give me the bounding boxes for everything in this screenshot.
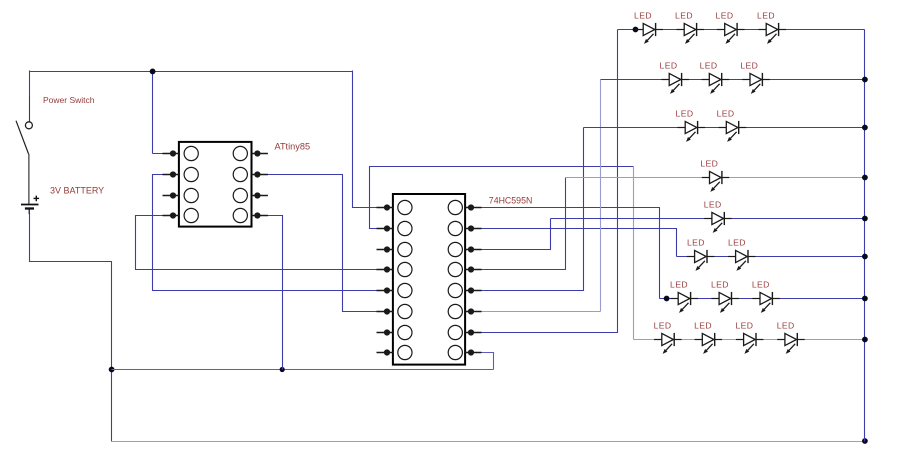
- svg-text:74HC595N: 74HC595N: [489, 195, 533, 205]
- LED D14 row1: [757, 11, 786, 44]
- wire 595 pin4R to row4 riser: [472, 178, 566, 270]
- wire LED row2: [601, 79, 865, 81]
- svg-text:LED: LED: [752, 280, 770, 290]
- junction bottom right corner: [862, 438, 868, 444]
- wire battery negative down-right-down: [30, 214, 112, 442]
- wire GND horizontal: [112, 369, 494, 371]
- svg-text:ATtiny85: ATtiny85: [275, 142, 311, 152]
- wire LED row7: [660, 298, 865, 300]
- wire ATtiny pin7 to 595 pin6L: [258, 175, 388, 312]
- LED D23 row2: [740, 61, 769, 94]
- svg-text:LED: LED: [740, 61, 758, 71]
- svg-text:LED: LED: [735, 321, 753, 331]
- svg-text:LED: LED: [777, 321, 795, 331]
- LED D22 row2: [700, 61, 729, 94]
- wire riser to LED row2: [600, 80, 602, 312]
- LED D71 row7: [670, 280, 698, 313]
- svg-text:3V BATTERY: 3V BATTERY: [50, 185, 104, 195]
- junction bus/row8: [862, 337, 868, 343]
- svg-text:LED: LED: [711, 280, 729, 290]
- wire LED row3: [584, 127, 865, 129]
- svg-text:LED: LED: [670, 280, 688, 290]
- switch S1 Power Switch: [16, 121, 32, 205]
- junction GND/ATtiny pin5: [280, 367, 285, 372]
- junction row1 left: [633, 27, 639, 33]
- svg-text:LED: LED: [704, 200, 722, 210]
- wire rail to ATtiny85 pin1 riser: [152, 72, 154, 154]
- junction bus/row5: [862, 216, 868, 222]
- battery BT1 3V: [21, 196, 39, 214]
- wire 595 pin3R to row5 riser: [472, 219, 551, 250]
- LED D13 row1: [716, 11, 745, 44]
- wire LED row1: [618, 29, 865, 31]
- wire rail corner down to switch: [29, 71, 31, 97]
- wire 595 pin2R to row6 riser: [472, 229, 677, 257]
- wire 595 pin5R to row3 riser: [472, 128, 584, 291]
- LED D82 row8: [694, 321, 722, 354]
- wire LED row4: [566, 177, 865, 179]
- svg-text:LED: LED: [687, 238, 705, 248]
- junction bus/row7: [862, 296, 868, 302]
- svg-text:LED: LED: [700, 61, 718, 71]
- junction battery/GND rail: [109, 367, 115, 373]
- LED D84 row8: [777, 321, 805, 354]
- wire right bus: [864, 30, 866, 442]
- junction rail/ATtiny: [150, 69, 156, 75]
- junction bus/row2: [862, 77, 868, 83]
- wire GND up to 595 pin9: [467, 353, 494, 370]
- svg-text:Power Switch: Power Switch: [43, 95, 95, 105]
- wire top power rail: [30, 71, 353, 73]
- svg-text:LED: LED: [717, 109, 735, 119]
- wire ATtiny pin5 to GND: [258, 216, 283, 370]
- junction bus/row3: [862, 125, 868, 131]
- svg-text:LED: LED: [728, 238, 746, 248]
- wire 595 pin7R to row1 riser: [472, 30, 618, 333]
- wire LED row5: [551, 218, 865, 220]
- op-amp U1 ATtiny85 DIP-8: [163, 142, 268, 227]
- LED D62 row6: [728, 238, 756, 271]
- op-amp U2 74HC595N DIP-16: [377, 194, 482, 365]
- svg-text:LED: LED: [634, 11, 652, 21]
- wire 595 pin1R to row7 riser: [472, 208, 660, 299]
- wire to ATtiny85 pin1: [153, 153, 174, 155]
- junction bus/row4: [862, 175, 868, 181]
- svg-text:LED: LED: [700, 159, 718, 169]
- svg-text:LED: LED: [654, 321, 672, 331]
- svg-text:LED: LED: [676, 109, 694, 119]
- wire riser to LED row8: [633, 167, 635, 340]
- svg-text:LED: LED: [660, 61, 678, 71]
- svg-text:LED: LED: [675, 11, 693, 21]
- svg-text:LED: LED: [716, 11, 734, 21]
- wire ATtiny pin4 to 595 pin4L: [136, 216, 388, 270]
- wire bottom return: [112, 441, 865, 443]
- wire LED row6: [677, 256, 865, 258]
- LED D32 row3: [717, 109, 746, 142]
- LED D72 row7: [711, 280, 739, 313]
- LED D11 row1: [634, 11, 663, 44]
- svg-text:LED: LED: [694, 321, 712, 331]
- LED D12 row1: [675, 11, 704, 44]
- LED D51 row5: [704, 200, 732, 233]
- wire rail to 74HC595 pin1: [353, 71, 388, 208]
- wire LED row8: [634, 339, 865, 341]
- junction row7 left: [664, 296, 670, 302]
- LED D81 row8: [654, 321, 682, 354]
- svg-text:LED: LED: [757, 11, 775, 21]
- LED D31 row3: [676, 109, 705, 142]
- LED D41 row4: [700, 159, 729, 192]
- LED D73 row7: [752, 280, 780, 313]
- wire ATtiny pin2 to 595 pin5L: [153, 175, 388, 291]
- junction bus/row6: [862, 254, 868, 260]
- wire switch top lead: [29, 97, 31, 122]
- LED D61 row6: [687, 238, 715, 271]
- wire 595 pin6R to row2 riser: [480, 311, 601, 313]
- wire 595 pin2L up and right: [370, 167, 634, 229]
- LED D21 row2: [660, 61, 689, 94]
- LED D83 row8: [735, 321, 763, 354]
